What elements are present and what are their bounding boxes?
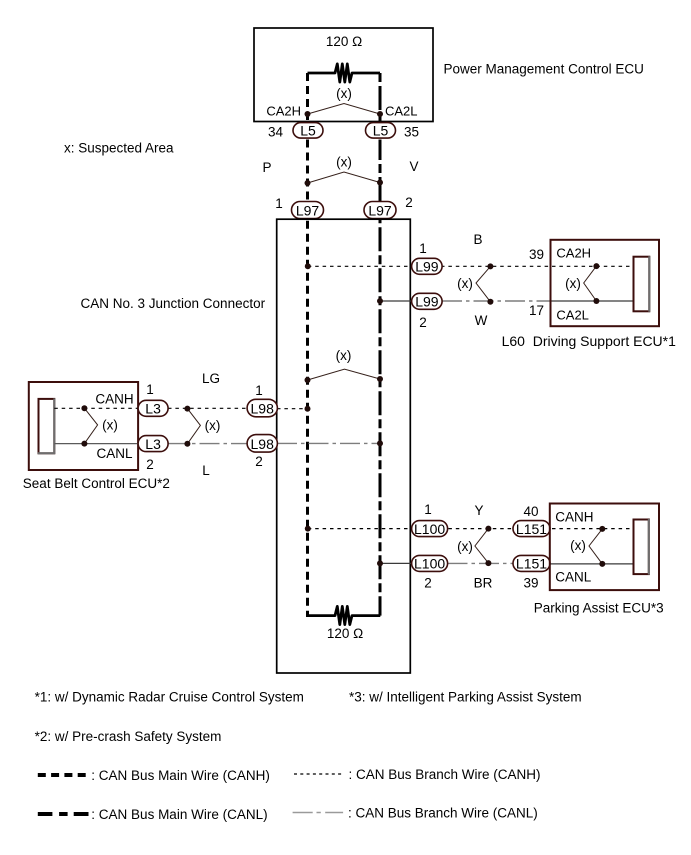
- wire: CANL branch L99 row inside junction box (thin): [380, 300, 411, 302]
- wire: CANH main bus inside top ECU (thick dashed, vertical): [306, 73, 309, 125]
- svg-text:: CAN Bus Branch Wire (CANL): : CAN Bus Branch Wire (CANL): [348, 806, 538, 821]
- svg-text:LG: LG: [202, 371, 220, 386]
- svg-text:2: 2: [255, 454, 263, 469]
- pointer lines to suspected points (L99 branch): [476, 266, 490, 301]
- pointer lines to suspected points (inside parking ECU): [589, 529, 602, 564]
- svg-text:(x): (x): [205, 418, 221, 433]
- node: suspect dot on L99 CANL branch: [487, 299, 493, 305]
- svg-text:x: Suspected Area: x: Suspected Area: [64, 141, 174, 156]
- svg-text:(x): (x): [570, 538, 586, 553]
- legend swatch: CAN bus main wire CANH (thick dashed): [38, 773, 86, 777]
- svg-text:L100: L100: [414, 556, 445, 572]
- node: suspect dot CANH inside seat belt ECU: [81, 405, 87, 411]
- legend swatch: CAN bus main wire CANL (thick dash-dot): [38, 812, 89, 816]
- svg-text:: CAN Bus Main Wire (CANL): : CAN Bus Main Wire (CANL): [91, 807, 267, 822]
- connector L97 (right, pin 2): [364, 202, 396, 219]
- resistor R-top 120 ohm (zigzag): [308, 64, 381, 82]
- node: junction dot on CANH bus (middle): [305, 377, 311, 383]
- svg-text:Power Management Control ECU: Power Management Control ECU: [444, 62, 644, 77]
- connector L100 (pin 1): [412, 521, 448, 537]
- node: CA2L junction dot (top): [377, 111, 383, 117]
- svg-text:1: 1: [424, 502, 432, 517]
- svg-text:(x): (x): [102, 418, 118, 433]
- svg-text:CA2H: CA2H: [266, 104, 301, 119]
- svg-text:L5: L5: [300, 123, 316, 139]
- connector L98 (pin 1): [247, 399, 277, 417]
- connector L5 (right, pin 35): [366, 123, 396, 139]
- pointer lines to suspected points (L100 branch): [475, 529, 489, 564]
- wire: CANL branch L3 to L98 (thin gray dash-dot): [168, 443, 247, 445]
- svg-text:*2: w/ Pre-crash Safety System: *2: w/ Pre-crash Safety System: [35, 729, 222, 744]
- node: suspect dot on L100 CANH branch: [485, 526, 491, 532]
- svg-text:2: 2: [146, 457, 154, 472]
- connector L151 (pin 39): [513, 555, 550, 571]
- svg-text:*1: w/ Dynamic Radar Cruise Co: *1: w/ Dynamic Radar Cruise Control Syst…: [35, 689, 304, 704]
- wire: CANL branch L98 to CANL bus (thin gray dash-dot, crosses CANH bus): [277, 442, 380, 444]
- svg-text:Parking Assist ECU*3: Parking Assist ECU*3: [534, 601, 664, 616]
- svg-text:L5: L5: [373, 123, 389, 139]
- svg-text:L98: L98: [251, 401, 275, 417]
- svg-text:Seat Belt Control ECU*2: Seat Belt Control ECU*2: [23, 476, 170, 491]
- wire: CANL main bus inside junction box (thick dash-dot vertical): [379, 219, 382, 615]
- node: junction dot on CANL bus (middle): [377, 376, 383, 382]
- svg-text:40: 40: [523, 504, 538, 519]
- svg-text:L: L: [202, 463, 210, 478]
- svg-text:39: 39: [523, 576, 538, 591]
- svg-text:L97: L97: [296, 202, 320, 218]
- node: junction dot CANL bus to L100 branch: [377, 560, 383, 566]
- svg-text:: CAN Bus Main Wire (CANH): : CAN Bus Main Wire (CANH): [91, 768, 270, 783]
- node: suspect dot CANH inside parking ECU: [599, 526, 605, 532]
- svg-text:1: 1: [419, 241, 427, 256]
- wire: CANL main bus inside top ECU (thick dash-dot, vertical): [379, 73, 382, 125]
- connector L100 (pin 2): [412, 555, 448, 571]
- node: junction dot CANL bus at L98 branch: [377, 440, 383, 446]
- node: suspect dot CANL inside seat belt ECU: [81, 441, 87, 447]
- wire: CANL main bus L5 to L97 (thick dash-dot): [379, 140, 382, 203]
- svg-text:120 Ω: 120 Ω: [326, 34, 362, 49]
- svg-text:(x): (x): [336, 348, 352, 363]
- svg-text:L60 Driving Support ECU*1: L60 Driving Support ECU*1: [502, 333, 677, 349]
- connector terminal block (driving ECU): [634, 256, 650, 312]
- connector L98 (pin 2): [247, 435, 277, 453]
- pointer lines to suspected points (L3-L98 branch): [187, 409, 200, 444]
- node: suspect dot on L99 CANH branch: [487, 263, 493, 269]
- svg-text:2: 2: [419, 315, 427, 330]
- wire: CANL branch L100 to L151 (thin gray dash-dot): [448, 562, 551, 564]
- connector terminal block (parking ECU): [634, 519, 649, 575]
- svg-text:L98: L98: [251, 436, 275, 452]
- legend swatch: CAN bus branch wire CANL (thin gray dash-dot): [293, 812, 344, 814]
- wire: CANL inside driving ECU (thin): [551, 300, 634, 302]
- svg-text:P: P: [262, 160, 271, 175]
- svg-text:B: B: [473, 232, 482, 247]
- wire: CANH main bus inside junction box (thick dashed vertical): [306, 219, 309, 615]
- svg-text:L3: L3: [145, 436, 161, 452]
- svg-text:L100: L100: [414, 521, 445, 537]
- pointer lines to suspected points (middle of junction box): [308, 369, 381, 380]
- svg-text:CANL: CANL: [96, 446, 133, 461]
- svg-text:L151: L151: [516, 556, 547, 572]
- connector L151 (pin 40): [513, 521, 550, 537]
- svg-text:L99: L99: [415, 259, 439, 275]
- node: junction dot on V wire: [377, 180, 383, 186]
- svg-text:(x): (x): [565, 276, 581, 291]
- svg-text:(x): (x): [457, 276, 473, 291]
- svg-text:(x): (x): [336, 155, 352, 170]
- node: junction dot CANH bus to L100 branch: [305, 526, 311, 532]
- svg-text:CAN No. 3 Junction Connector: CAN No. 3 Junction Connector: [81, 296, 266, 311]
- node: suspect dot CA2L inside driving ECU: [593, 298, 599, 304]
- node: suspect dot CA2H inside driving ECU: [593, 263, 599, 269]
- CAN No. 3 Junction Connector box: [277, 219, 411, 673]
- wire: CANH branch L100 row (thin dashed) from bus to ECU connector: [308, 528, 634, 530]
- Power Management Control ECU box: [254, 28, 433, 122]
- svg-text:120 Ω: 120 Ω: [327, 626, 363, 641]
- svg-text:34: 34: [268, 125, 284, 140]
- svg-text:L97: L97: [368, 202, 392, 218]
- L60 Driving Support ECU box: [551, 240, 660, 326]
- svg-text:35: 35: [404, 125, 419, 140]
- svg-text:1: 1: [146, 382, 154, 397]
- svg-text:Y: Y: [474, 503, 483, 518]
- svg-text:BR: BR: [474, 576, 493, 591]
- svg-text:: CAN Bus Branch Wire (CANH): : CAN Bus Branch Wire (CANH): [349, 767, 541, 782]
- node: suspect dot on L100 CANL branch: [485, 560, 491, 566]
- svg-text:CANH: CANH: [95, 392, 133, 407]
- svg-text:L3: L3: [145, 401, 161, 417]
- connector L3 (pin 2): [138, 436, 168, 452]
- svg-text:(x): (x): [336, 86, 352, 101]
- legend swatch: CAN bus branch wire CANH (thin dashed): [294, 773, 343, 775]
- svg-text:39: 39: [529, 247, 544, 262]
- svg-text:(x): (x): [457, 539, 473, 554]
- connector L99 (pin 2): [412, 293, 443, 309]
- svg-text:CANH: CANH: [555, 510, 593, 525]
- svg-text:L99: L99: [415, 294, 439, 310]
- Seat Belt Control ECU box: [29, 382, 138, 470]
- wire: CANH inside seat belt ECU (thin dashed): [54, 407, 138, 409]
- connector terminal block (seat belt ECU): [38, 398, 55, 453]
- connector L5 (left, pin 34): [293, 123, 323, 139]
- svg-text:CA2L: CA2L: [556, 308, 589, 323]
- svg-text:17: 17: [529, 303, 544, 318]
- wire: CANL inside parking ECU (thin): [550, 563, 634, 565]
- node: junction dot CANH bus to L99 branch: [305, 263, 311, 269]
- svg-text:1: 1: [275, 196, 283, 211]
- node: junction dot on P wire: [305, 180, 311, 186]
- pointer lines to suspected points (inside seat belt ECU): [84, 408, 97, 443]
- wire: CANH branch L98 to CANH bus (thin dashed): [277, 408, 308, 410]
- svg-text:2: 2: [405, 195, 413, 210]
- Parking Assist ECU box: [550, 504, 659, 591]
- wire: CANL branch L100 row inside junction box (thin): [380, 562, 411, 564]
- pointer lines to suspected points (top box): [308, 104, 381, 115]
- svg-text:CA2H: CA2H: [556, 246, 591, 261]
- node: suspect dot on L3-L98 CANL branch: [184, 441, 190, 447]
- node: junction dot CANH bus at L98 branch: [305, 406, 311, 412]
- svg-text:V: V: [409, 159, 418, 174]
- svg-text:2: 2: [424, 576, 432, 591]
- svg-text:1: 1: [255, 383, 263, 398]
- wire: CANL branch L99 to ECU (thin gray dash-dot): [442, 300, 551, 302]
- svg-text:CANL: CANL: [555, 570, 592, 585]
- node: suspect dot on L3-L98 CANH branch: [184, 406, 190, 412]
- svg-text:W: W: [475, 313, 488, 328]
- svg-text:L151: L151: [516, 521, 547, 537]
- wire: CANH branch L99 row (thin dashed) from bus to ECU connector: [308, 265, 634, 267]
- svg-text:*3: w/ Intelligent Parking Ass: *3: w/ Intelligent Parking Assist System: [349, 689, 582, 704]
- wire: CANH branch L3 to L98 (thin dashed): [168, 407, 247, 409]
- connector L3 (pin 1): [138, 400, 168, 416]
- connector L99 (pin 1): [412, 258, 443, 274]
- pointer lines to suspected points (inside driving ECU): [584, 266, 597, 301]
- node: CA2H junction dot (top): [305, 111, 311, 117]
- node: suspect dot CANL inside parking ECU: [599, 561, 605, 567]
- node: junction dot CANL bus to L99 branch: [377, 298, 383, 304]
- pointer lines to suspected points (P/V section): [308, 172, 381, 183]
- connector L97 (left, pin 1): [292, 202, 324, 219]
- wire: CANH main bus L5 to L97 (thick dashed): [306, 140, 309, 203]
- resistor R-bottom 120 ohm (zigzag): [306, 606, 380, 624]
- wire: CANL inside seat belt ECU (thin): [54, 443, 138, 445]
- svg-text:CA2L: CA2L: [385, 104, 418, 119]
